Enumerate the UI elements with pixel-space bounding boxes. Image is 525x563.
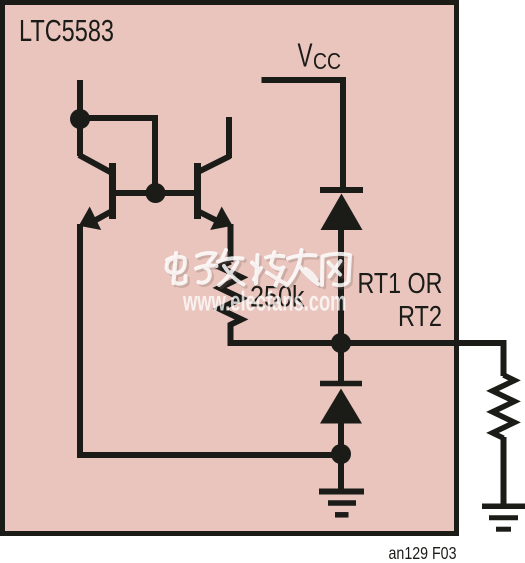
wire: node horizontal to RT pin and external (231, 343, 504, 376)
watermark chinese characters shadow (169, 252, 352, 288)
char you (287, 250, 319, 286)
wire: collector stub of Q1 (77, 80, 83, 156)
svg-text:LTC5583: LTC5583 (19, 13, 114, 48)
junction dot B (base rail) (146, 183, 166, 203)
diode D1 triangle (321, 194, 363, 231)
wire: Q1 emitter diagonal (94, 211, 113, 222)
wire: Q1 collector diagonal (79, 155, 112, 173)
diode D2 triangle (320, 389, 362, 424)
resistor RT external zigzag (493, 375, 515, 438)
wire: D1 anode to node (338, 229, 344, 343)
char shao (252, 252, 285, 286)
wire: Vcc rail (262, 80, 344, 190)
wire: Q2 emitter down to R1 (228, 224, 234, 262)
junction dot C (RT node) (331, 333, 351, 353)
svg-text:www.elecfans.com: www.elecfans.com (182, 286, 346, 317)
svg-text:V: V (298, 37, 313, 74)
wire: Q2 emitter diagonal (197, 211, 218, 222)
transistor Q2 base bar (194, 163, 201, 219)
wire: Q2 collector diagonal (198, 156, 230, 172)
svg-text:CC: CC (313, 48, 341, 74)
wire: D2 cathode lead (338, 343, 344, 384)
ground GND2 external (482, 506, 525, 529)
wire: base rail (112, 190, 197, 196)
char zi (196, 253, 217, 283)
char fa (218, 250, 244, 285)
wire: Q1 emitter vertical run (77, 224, 83, 455)
wire: collector-to-base tie horizontal (77, 115, 155, 121)
ground GND1 internal (319, 492, 364, 515)
resistor R1 250k zigzag (220, 262, 242, 347)
char wang (322, 254, 350, 285)
wire: collector-to-base tie vertical (152, 115, 158, 193)
wire: emitter to D2 anode horizontal (77, 452, 341, 458)
svg-text:RT1 OR: RT1 OR (358, 268, 443, 300)
wire: Q2 collector stub (226, 117, 232, 158)
char dian (167, 253, 186, 284)
diode D1 cathode bar (320, 187, 363, 193)
transistor Q1 base bar (109, 163, 116, 219)
svg-text:an129 F03: an129 F03 (389, 543, 457, 563)
transistor Q1 emitter arrowhead (79, 207, 101, 231)
wire: D2 anode lead (338, 423, 344, 454)
junction dot A (collector tie) (70, 109, 90, 129)
watermark chinese characters (167, 250, 350, 286)
wire: dot3 to ground (338, 454, 344, 491)
svg-text:RT2: RT2 (398, 301, 442, 333)
transistor Q2 emitter arrowhead (210, 207, 232, 231)
wire: external resistor bottom lead (501, 437, 507, 506)
diode D2 cathode bar (320, 381, 362, 387)
junction dot D (D2 anode node) (331, 444, 351, 464)
